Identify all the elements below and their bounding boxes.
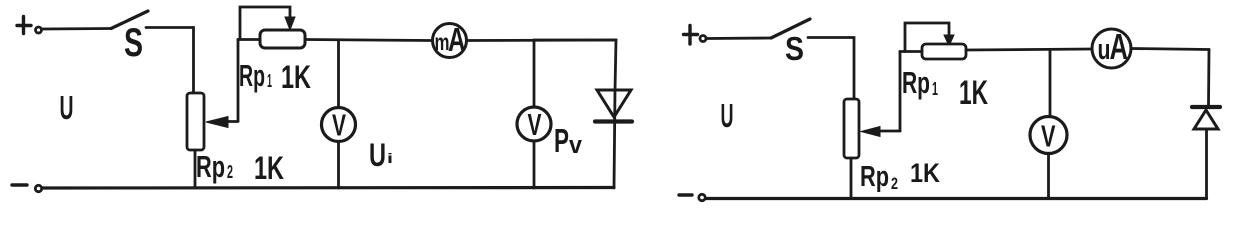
top wire Rp1 to uA meter right [966, 49, 1092, 50]
terminal circle positive right [700, 36, 706, 42]
node junction V2 branch [533, 40, 536, 107]
svg-text:U: U [60, 89, 74, 126]
svg-text:1: 1 [932, 79, 938, 99]
terminal circle negative [35, 185, 41, 191]
svg-text:Rp: Rp [239, 58, 265, 93]
bottom rail right circuit [706, 197, 1207, 200]
ammeter mA [433, 24, 467, 58]
right edge wire with diode D1 [534, 40, 616, 90]
top wire Rp1 to mA meter [305, 40, 433, 41]
rheostat Rp1 body right [922, 44, 966, 59]
svg-text:i: i [387, 150, 393, 166]
wire loop to Rp1 left end [238, 38, 260, 41]
Rp2 bottom wire [194, 150, 197, 188]
rheostat Rp1 loop wire [240, 7, 290, 40]
svg-text:2: 2 [891, 174, 898, 193]
svg-text:1K: 1K [910, 158, 940, 188]
rheostat Rp1 body [260, 30, 305, 48]
Rp2 wiper arrow [226, 120, 238, 123]
wire Rp2 wiper up to Rp1 left [237, 40, 240, 122]
svg-text:Rp: Rp [860, 161, 889, 193]
node junction V1 branch [337, 40, 340, 108]
svg-text:V: V [332, 108, 346, 143]
svg-text:A: A [448, 21, 466, 58]
svg-text:S: S [124, 21, 143, 65]
wire V2 to bottom rail [533, 141, 536, 188]
switch S blade [111, 11, 148, 29]
rheostat Rp1 loop wire right [905, 23, 949, 52]
voltmeter V2 (Pv) [517, 107, 551, 141]
node junction V branch right [1049, 50, 1052, 117]
Rp2 bottom wire right [850, 158, 853, 198]
wire Rp2 wiper up to Rp1 left right [899, 52, 902, 132]
svg-text:A: A [1110, 26, 1129, 67]
diode D1 cathode bar [595, 119, 632, 123]
potentiometer Rp2 body [187, 93, 204, 150]
diode D2 cathode bar (top) [1192, 105, 1220, 109]
microammeter uA [1092, 29, 1131, 68]
svg-text:V: V [528, 107, 542, 142]
svg-text:P: P [554, 122, 569, 159]
svg-text:1K: 1K [281, 59, 311, 95]
svg-text:1K: 1K [959, 74, 988, 112]
svg-text:2: 2 [227, 162, 233, 182]
wire + terminal to switch right [707, 37, 772, 40]
voltmeter V1 [322, 108, 356, 142]
wire switch to Rp2 top [146, 28, 194, 94]
svg-text:1: 1 [267, 71, 272, 91]
node - terminal (negative) [12, 183, 27, 186]
wire V1 to bottom rail [337, 142, 340, 189]
Rp2 wiper arrow right [878, 130, 900, 133]
bottom rail left circuit [42, 186, 614, 190]
right edge wire with diode D2 [1207, 50, 1210, 106]
wire from + terminal to switch [42, 27, 111, 30]
wire uA to right corner [1131, 49, 1209, 50]
node - terminal (negative) right [679, 193, 692, 196]
diode D2 wire through and down [1205, 129, 1208, 199]
svg-text:1K: 1K [254, 150, 284, 186]
wire switch to Rp2 top right [808, 38, 854, 100]
wire mA to right corner [467, 39, 617, 42]
wire to Rp1 left end right [900, 50, 922, 53]
terminal circle negative right [699, 194, 705, 200]
terminal circle positive [36, 27, 42, 33]
voltmeter V right [1030, 117, 1067, 154]
diode D2 triangle (pointing up) [1194, 110, 1218, 129]
node + terminal (positive) [17, 17, 31, 34]
Rp1 wiper arrow (down) [285, 17, 295, 30]
svg-text:U: U [721, 97, 734, 134]
potentiometer Rp2 body right [844, 99, 859, 158]
switch S blade right [771, 19, 810, 38]
svg-text:Rp: Rp [902, 65, 930, 100]
Rp1 wiper arrow (down) right [944, 35, 954, 46]
svg-text:S: S [785, 30, 804, 67]
svg-text:Rp: Rp [196, 149, 225, 184]
node + terminal (positive) right [684, 26, 698, 45]
wire V to bottom rail right [1047, 154, 1050, 199]
svg-text:V: V [1041, 119, 1056, 154]
svg-text:U: U [369, 137, 386, 173]
diode D1 triangle [597, 90, 631, 117]
svg-text:v: v [569, 132, 583, 159]
diode D1 wire through and down [614, 90, 615, 188]
